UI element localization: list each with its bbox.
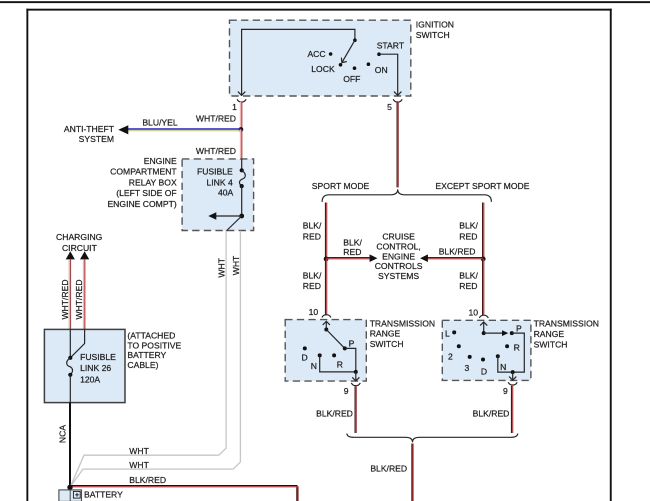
svg-text:FUSIBLE: FUSIBLE (197, 167, 233, 177)
wire WHT horizontal lower (70, 469, 233, 487)
left TRS contact N (318, 353, 322, 357)
svg-text:CONTROL,: CONTROL, (376, 241, 420, 251)
svg-text:R: R (337, 359, 343, 369)
right TRS entry arrow (480, 322, 487, 326)
svg-text:CIRCUIT: CIRCUIT (62, 243, 98, 253)
contact START (377, 52, 381, 56)
svg-text:LOCK: LOCK (311, 64, 335, 74)
battery positive terminal (73, 492, 80, 499)
page top rule (0, 1, 650, 3)
svg-text:CHARGING: CHARGING (56, 232, 103, 242)
pin 10 connector left (322, 315, 331, 318)
ignition lever to LOCK (342, 40, 355, 62)
wire WHT/RED pin1 upper (240, 102, 242, 130)
svg-text:(ATTACHED: (ATTACHED (127, 330, 175, 340)
contact LOCK (339, 63, 343, 67)
wire WHT/RED charging left (68, 259, 70, 329)
svg-text:FUSIBLE: FUSIBLE (80, 352, 116, 362)
wire diagonal branch in relay box (226, 216, 242, 231)
svg-text:BLK/RED: BLK/RED (439, 246, 476, 256)
svg-text:ENGINE COMPT): ENGINE COMPT) (107, 199, 176, 209)
svg-text:5: 5 (387, 102, 392, 112)
svg-text:RED: RED (303, 281, 321, 291)
left TRS entry arrow (323, 321, 330, 325)
node left TRS output junction (354, 370, 358, 374)
wire BLK/RED left TRS pin 9 (354, 386, 356, 433)
svg-text:CABLE): CABLE) (127, 360, 158, 370)
fusible link 4 lead out (241, 186, 243, 216)
ignition internal wire START to pin5 (379, 54, 398, 95)
wire WHT left vertical (219, 231, 226, 456)
svg-text:RANGE: RANGE (534, 329, 565, 339)
node anti-theft junction (239, 127, 244, 132)
svg-text:ENGINE: ENGINE (144, 156, 177, 166)
arrow to other circuits (214, 215, 242, 217)
svg-text:WHT: WHT (231, 255, 241, 275)
svg-text:SWITCH: SWITCH (534, 340, 568, 350)
svg-text:BLK/: BLK/ (459, 221, 478, 231)
left TRS contact D (303, 346, 307, 350)
transmission range switch left S2 (285, 320, 366, 382)
svg-text:D: D (301, 353, 307, 363)
fusible link 26 F26 (68, 356, 72, 360)
wire NCA to battery (69, 403, 71, 490)
svg-text:BLU/YEL: BLU/YEL (142, 117, 178, 127)
right TRS contact 2 (457, 344, 461, 348)
right TRS lever to P (484, 332, 504, 334)
page border frame top (26, 9, 611, 11)
svg-text:BLK/: BLK/ (303, 221, 322, 231)
wire BLK/RED sport branch lower (325, 259, 327, 315)
svg-text:WHT: WHT (217, 257, 227, 277)
svg-text:WHT/RED: WHT/RED (196, 113, 236, 123)
wire BLK/RED to cruise control left (326, 257, 370, 259)
svg-text:BLK/: BLK/ (343, 237, 362, 247)
fusible link 26 box (44, 329, 125, 402)
wire WHT horizontal upper (70, 455, 219, 486)
svg-text:TRANSMISSION: TRANSMISSION (534, 319, 599, 329)
svg-text:BLK/: BLK/ (459, 270, 478, 280)
svg-text:BATTERY: BATTERY (84, 490, 123, 500)
svg-text:WHT: WHT (129, 460, 149, 470)
arrow up to charging circuit right (80, 251, 89, 259)
fusible link 26 lead out (69, 375, 71, 403)
svg-text:P: P (516, 323, 522, 333)
svg-text:9: 9 (503, 386, 508, 396)
node except-sport branch junction (481, 257, 486, 262)
contact ON (367, 62, 371, 66)
svg-text:EXCEPT SPORT MODE: EXCEPT SPORT MODE (435, 181, 529, 191)
svg-text:N: N (500, 362, 506, 372)
svg-text:10: 10 (309, 307, 319, 317)
engine compartment relay box (fusible link 4) (182, 159, 254, 231)
svg-text:BLK/RED: BLK/RED (370, 463, 407, 473)
right TRS exit arrow (512, 372, 514, 380)
right TRS contact N (496, 354, 500, 358)
svg-text:1: 1 (232, 102, 237, 112)
svg-text:COMPARTMENT: COMPARTMENT (110, 167, 177, 177)
svg-text:CONTROLS: CONTROLS (375, 261, 423, 271)
contact ACC (329, 52, 333, 56)
wire BLK/RED merged output (411, 444, 413, 501)
svg-text:WHT/RED: WHT/RED (196, 146, 236, 156)
svg-text:ENGINE: ENGINE (382, 251, 415, 261)
svg-text:WHT: WHT (129, 446, 149, 456)
fusible link 26 left lead (69, 329, 71, 357)
svg-text:SPORT MODE: SPORT MODE (312, 181, 370, 191)
svg-text:RED: RED (459, 281, 477, 291)
left TRS N to output rail (320, 355, 356, 372)
svg-text:TRANSMISSION: TRANSMISSION (370, 318, 435, 328)
svg-text:IGNITION: IGNITION (416, 20, 454, 30)
svg-text:RED: RED (303, 231, 321, 241)
ignition lever arrowhead (341, 58, 346, 63)
svg-text:L: L (445, 328, 450, 338)
svg-text:TO POSITIVE: TO POSITIVE (127, 340, 181, 350)
svg-text:SWITCH: SWITCH (370, 339, 404, 349)
pin 9 connector left (351, 383, 360, 386)
svg-text:SYSTEMS: SYSTEMS (378, 271, 419, 281)
svg-text:R: R (514, 343, 520, 353)
right TRS contact 3 (468, 355, 472, 359)
ignition pin5 arrowhead (394, 92, 401, 96)
arrow up to charging circuit left (66, 251, 75, 259)
right TRS P to output (512, 333, 525, 372)
ignition internal wire pin1 feed (242, 29, 355, 95)
left TRS exit arrow (355, 372, 357, 381)
node battery positive junction (67, 485, 72, 490)
fusible link 4 F4 (240, 168, 244, 172)
svg-text:10: 10 (468, 307, 478, 317)
ignition switch box S1 (230, 20, 411, 96)
brace merge to single BLK/RED (347, 434, 518, 443)
svg-text:RED: RED (343, 247, 361, 257)
left TRS P to output (345, 348, 356, 372)
svg-text:SYSTEM: SYSTEM (79, 134, 114, 144)
left TRS contact P (343, 346, 347, 350)
fusible link 4 lead in (241, 159, 243, 170)
page border frame right (610, 9, 612, 501)
page border frame left (26, 9, 28, 501)
ignition pin1 arrowhead (238, 92, 245, 96)
right TRS N to output rail (498, 356, 513, 372)
svg-text:CRUISE: CRUISE (382, 232, 415, 242)
right TRS contact R (505, 344, 509, 348)
wire WHT right vertical (233, 231, 240, 469)
svg-text:BLK/RED: BLK/RED (129, 475, 166, 485)
svg-text:SWITCH: SWITCH (416, 30, 450, 40)
wire BLK/RED to cruise control right (427, 257, 483, 259)
right TRS contact P (510, 331, 514, 335)
svg-text:P: P (349, 338, 355, 348)
svg-text:ACC: ACC (307, 49, 325, 59)
wire WHT/RED charging right (83, 259, 85, 329)
left TRS pivot (324, 328, 328, 332)
wire BLU/YEL to anti-theft (128, 128, 241, 130)
svg-text:(LEFT SIDE OF: (LEFT SIDE OF (116, 188, 176, 198)
svg-text:OFF: OFF (343, 74, 360, 84)
node fusible link 4 output junction (239, 214, 244, 219)
svg-text:120A: 120A (80, 374, 100, 384)
left TRS lever to P (326, 330, 345, 349)
right TRS contact D (481, 358, 485, 362)
svg-text:BLK/: BLK/ (303, 270, 322, 280)
pin 9 connector right (508, 382, 517, 385)
fusible link 26 right lead diagonal (70, 329, 84, 357)
svg-text:BLK/RED: BLK/RED (473, 409, 510, 419)
svg-text:N: N (311, 361, 317, 371)
svg-text:9: 9 (344, 386, 349, 396)
brace split sport / except sport (322, 189, 491, 202)
pin 10 connector right (479, 315, 488, 318)
svg-text:ANTI-THEFT: ANTI-THEFT (64, 124, 115, 134)
svg-text:LINK 4: LINK 4 (207, 177, 233, 187)
svg-text:RANGE: RANGE (370, 329, 401, 339)
wire BLK/RED except-sport branch lower (482, 259, 484, 316)
svg-text:START: START (377, 41, 405, 51)
wire WHT/RED pin1 lower (240, 130, 242, 160)
node sport branch junction (324, 257, 329, 262)
pin 5 connector (393, 99, 402, 102)
svg-text:WHT/RED: WHT/RED (60, 279, 70, 319)
svg-text:BLK/RED: BLK/RED (316, 409, 353, 419)
svg-text:LINK 26: LINK 26 (80, 363, 111, 373)
svg-text:WHT/RED: WHT/RED (74, 279, 84, 319)
transmission range switch right S3 (442, 320, 531, 380)
battery B1 (59, 490, 82, 501)
svg-text:40A: 40A (218, 188, 234, 198)
pin 1 connector (237, 99, 246, 102)
node right TRS output junction (511, 370, 515, 374)
svg-text:3: 3 (465, 363, 470, 373)
wire BLK/RED except-sport branch upper (482, 203, 484, 260)
svg-text:2: 2 (448, 351, 453, 361)
right TRS contact L (452, 330, 456, 334)
wire BLK/RED from pin 5 (396, 102, 398, 188)
left TRS contact R (332, 353, 336, 357)
wire BLK/RED battery feed horizontal (70, 486, 297, 501)
wire BLK/RED sport branch upper (325, 203, 327, 260)
svg-text:RELAY BOX: RELAY BOX (129, 177, 177, 187)
svg-text:D: D (481, 366, 487, 376)
right TRS pivot (482, 331, 486, 335)
svg-text:RED: RED (459, 231, 477, 241)
wire BLK/RED right TRS pin 9 (511, 386, 513, 433)
svg-text:ON: ON (375, 65, 388, 75)
arrowhead to anti-theft system (118, 125, 128, 134)
ignition lever pivot dot (353, 38, 357, 42)
contact OFF (353, 66, 357, 70)
svg-text:BATTERY: BATTERY (127, 350, 166, 360)
svg-text:NCA: NCA (57, 425, 67, 443)
